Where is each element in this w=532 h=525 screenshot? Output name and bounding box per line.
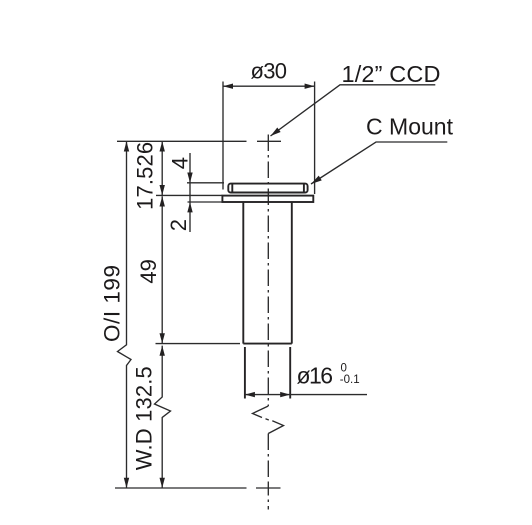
- svg-text:49: 49: [136, 259, 161, 284]
- label ø16 with tolerance: [297, 363, 360, 389]
- dimension 17.526 line: [160, 141, 165, 195]
- dimension 49 line: [160, 196, 165, 343]
- svg-text:1/2” CCD: 1/2” CCD: [342, 61, 441, 87]
- svg-text:4: 4: [168, 157, 193, 169]
- flange plate: [222, 196, 313, 202]
- lens barrel lower (ø16) section: [245, 347, 290, 399]
- dimension ø30: [223, 82, 315, 195]
- centerline cross tick at image plane: [257, 140, 281, 142]
- dimension ø16: [245, 392, 367, 397]
- svg-text:W.D 132.5: W.D 132.5: [131, 366, 156, 470]
- extension line at flange top: [156, 194, 222, 196]
- svg-text:17.526: 17.526: [132, 142, 157, 210]
- dimension 4 line: [187, 153, 192, 232]
- svg-text:0: 0: [341, 363, 347, 375]
- leader C Mount: [311, 142, 447, 184]
- svg-text:ø30: ø30: [251, 59, 288, 84]
- svg-text:ø16: ø16: [297, 363, 334, 389]
- extension line at barrel step: [156, 343, 241, 345]
- centerline break symbol (zigzag): [253, 406, 284, 434]
- dimension W.D 132.5 line with break: [155, 346, 171, 488]
- svg-text:2: 2: [166, 219, 191, 231]
- centerline cross tick at bottom work plane: [256, 487, 281, 489]
- svg-text:-0.1: -0.1: [340, 374, 360, 386]
- extension line at flange bottom: [188, 201, 223, 203]
- lens barrel upper section: [243, 202, 291, 344]
- svg-text:O/I 199: O/I 199: [99, 265, 124, 342]
- centerline (vertical dash-dot axis): [267, 135, 269, 510]
- bottom work plane line: [115, 487, 247, 489]
- svg-text:C Mount: C Mount: [366, 114, 454, 140]
- C mount ring outline: [228, 184, 307, 193]
- leader 1/2 inch CCD: [271, 85, 436, 136]
- dimension O/I 199 line with break: [118, 141, 132, 488]
- image plane line (top reference): [117, 140, 247, 142]
- extension line at C ring top: [187, 182, 224, 184]
